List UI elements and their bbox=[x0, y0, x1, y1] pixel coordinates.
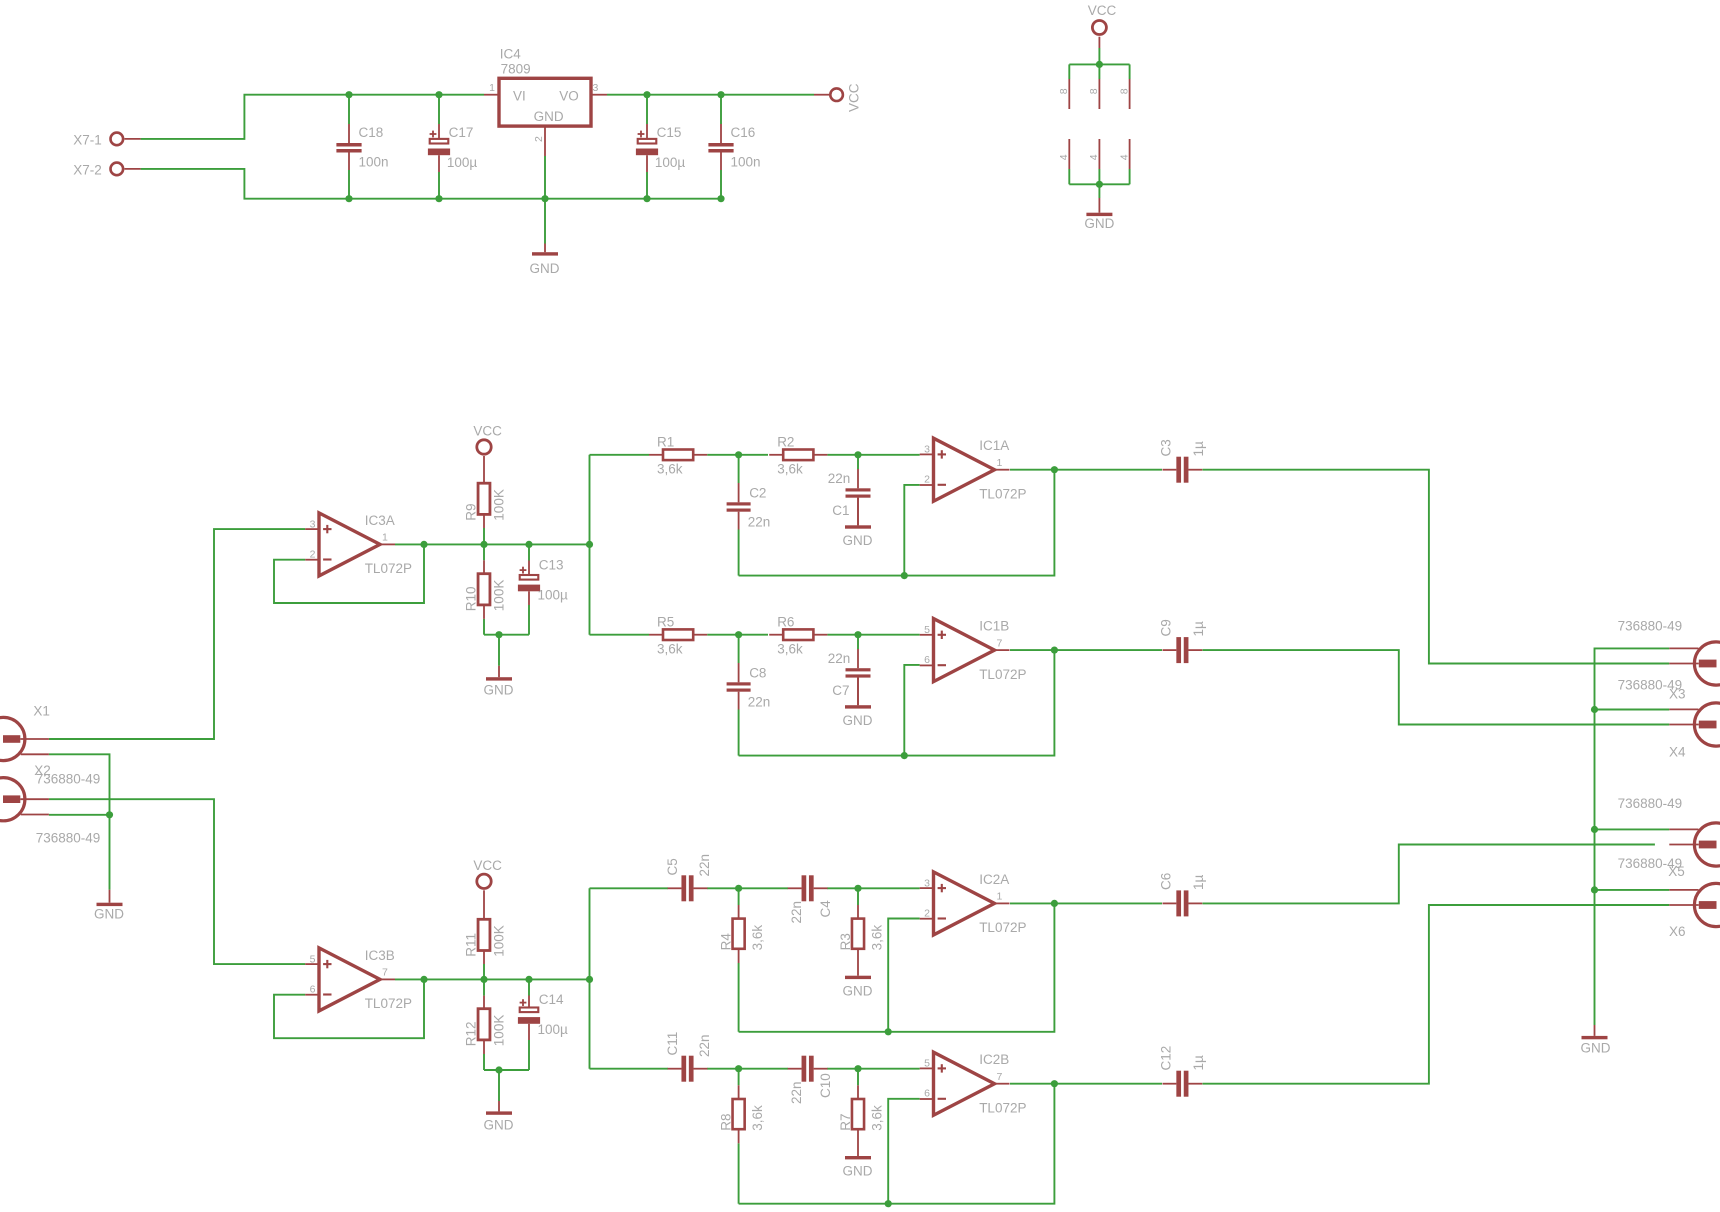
wire IC1A in- feedback bbox=[904, 485, 919, 576]
wire split vertical upper bbox=[589, 455, 591, 635]
wire IC3A output rail bbox=[395, 543, 590, 545]
svg-text:100µ: 100µ bbox=[447, 155, 478, 170]
wire C10 to IC2B bbox=[827, 1068, 920, 1070]
svg-text:22n: 22n bbox=[748, 695, 771, 710]
wire R4 to feedback bbox=[738, 963, 740, 1032]
wire C15 bottom bbox=[646, 172, 648, 199]
svg-text:736880-49: 736880-49 bbox=[36, 771, 101, 786]
resistor R1 bbox=[663, 450, 693, 461]
wire C18 bottom bbox=[348, 170, 350, 199]
svg-text:1µ: 1µ bbox=[1191, 441, 1206, 457]
svg-text:1: 1 bbox=[489, 82, 495, 94]
node C16 top bbox=[717, 91, 724, 98]
svg-text:3: 3 bbox=[593, 82, 599, 94]
svg-text:3,6k: 3,6k bbox=[777, 641, 803, 656]
wire X2 tip to IC3B in+ bbox=[49, 799, 305, 964]
capacitor C13 plates bbox=[520, 569, 527, 571]
wire vcc stub b bbox=[1098, 64, 1100, 79]
svg-text:X1: X1 bbox=[33, 704, 50, 719]
svg-text:100K: 100K bbox=[491, 580, 506, 612]
svg-text:X7-2: X7-2 bbox=[73, 163, 102, 178]
capacitor C9 bbox=[1176, 637, 1181, 663]
node C17 bottom bbox=[435, 195, 442, 202]
wire IC2B out to C12 bbox=[1010, 1083, 1162, 1085]
svg-text:GND: GND bbox=[843, 713, 873, 728]
node IC2A out bbox=[1051, 900, 1058, 907]
svg-text:VCC: VCC bbox=[473, 424, 502, 439]
wire IC1A out to C3 bbox=[1010, 469, 1162, 471]
wire R12 bottom bbox=[483, 1054, 485, 1070]
svg-text:2: 2 bbox=[924, 474, 930, 486]
resistor R5 bbox=[663, 629, 693, 640]
wire C13 bottom bbox=[528, 605, 530, 635]
svg-text:VI: VI bbox=[513, 89, 526, 104]
node X1/X2 sleeve bbox=[106, 811, 113, 818]
wire C6 to X5 bbox=[1203, 845, 1655, 904]
wire link to GND 2 bbox=[498, 1070, 500, 1101]
node C15 top bbox=[643, 91, 650, 98]
wire rail to R10 bbox=[483, 544, 485, 560]
svg-text:6: 6 bbox=[310, 983, 316, 995]
svg-text:8: 8 bbox=[1058, 88, 1070, 94]
svg-text:R5: R5 bbox=[657, 614, 674, 629]
node R12-C14 gnd bbox=[495, 1066, 502, 1073]
svg-text:IC1A: IC1A bbox=[979, 438, 1009, 453]
connector X6 jack bbox=[1694, 883, 1720, 926]
wire IC2A feedback rail bbox=[739, 903, 1055, 1031]
capacitor C6 bbox=[1176, 890, 1181, 916]
ground (C1) bbox=[857, 498, 859, 526]
wire gnd stub a bbox=[1068, 169, 1070, 184]
node IC4 gnd bbox=[541, 195, 548, 202]
svg-text:7: 7 bbox=[382, 967, 388, 979]
wire C16 top bbox=[720, 95, 722, 124]
svg-text:100µ: 100µ bbox=[655, 155, 686, 170]
connector X2 jack bbox=[0, 778, 25, 821]
voltage regulator IC4 7809 bbox=[499, 78, 591, 126]
svg-text:GND: GND bbox=[1581, 1041, 1611, 1056]
op-amp IC3A bbox=[319, 513, 380, 576]
VCC supply symbol (IC power) bbox=[1092, 21, 1106, 35]
capacitor C5 bbox=[681, 875, 686, 901]
svg-text:VCC: VCC bbox=[473, 858, 502, 873]
svg-text:100K: 100K bbox=[491, 925, 506, 957]
svg-text:C5: C5 bbox=[665, 858, 680, 875]
wire IC1B feedback rail bbox=[739, 650, 1055, 756]
connector X7-2 bbox=[111, 163, 124, 176]
node IC1A out bbox=[1051, 466, 1058, 473]
svg-text:4: 4 bbox=[1088, 154, 1100, 160]
node C18 top bbox=[345, 91, 352, 98]
svg-text:R1: R1 bbox=[657, 435, 674, 450]
VCC supply symbol (R9) bbox=[477, 440, 491, 454]
svg-text:1µ: 1µ bbox=[1191, 621, 1206, 637]
wire rail to C14 bbox=[528, 979, 530, 995]
svg-text:736880-49: 736880-49 bbox=[36, 831, 101, 846]
wire C12 to X6 bbox=[1203, 905, 1670, 1084]
capacitor C18 plates bbox=[336, 143, 361, 147]
wire gnd stub c bbox=[1129, 169, 1131, 184]
node R10-C13 gnd bbox=[495, 631, 502, 638]
svg-text:100n: 100n bbox=[731, 155, 761, 170]
svg-text:IC3B: IC3B bbox=[365, 948, 395, 963]
wire node to C8 bbox=[738, 635, 740, 663]
wire node to R7 bbox=[857, 1069, 859, 1086]
svg-text:R2: R2 bbox=[777, 435, 794, 450]
capacitor C3 bbox=[1176, 457, 1181, 483]
wire C9 to X4 bbox=[1203, 650, 1670, 724]
svg-text:3: 3 bbox=[310, 518, 316, 530]
wire X5 sleeve bbox=[1595, 828, 1670, 830]
wire to C11 bbox=[590, 1068, 669, 1070]
svg-text:TL072P: TL072P bbox=[979, 920, 1026, 935]
node X5 sleeve bbox=[1591, 826, 1598, 833]
svg-text:7: 7 bbox=[997, 637, 1003, 649]
node IC2A fb bbox=[885, 1028, 892, 1035]
svg-text:736880-49: 736880-49 bbox=[1618, 856, 1683, 871]
ground (R10/C13) bbox=[498, 666, 500, 677]
svg-text:GND: GND bbox=[843, 984, 873, 999]
node C17 top bbox=[435, 91, 442, 98]
svg-text:22n: 22n bbox=[789, 901, 804, 924]
svg-text:VCC: VCC bbox=[847, 83, 862, 112]
svg-text:1: 1 bbox=[382, 532, 388, 544]
wire C5 to C4 bbox=[707, 887, 788, 889]
wire C16 bottom bbox=[720, 170, 722, 199]
svg-text:22n: 22n bbox=[748, 515, 771, 530]
svg-text:3: 3 bbox=[924, 444, 930, 456]
wire C3 to X3 bbox=[1203, 470, 1670, 664]
svg-text:IC3A: IC3A bbox=[365, 513, 395, 528]
VCC supply symbol (R11) bbox=[477, 874, 491, 888]
op-amp IC2B bbox=[934, 1052, 995, 1115]
svg-text:R11: R11 bbox=[463, 933, 478, 957]
node IC1B out bbox=[1051, 647, 1058, 654]
node C18 bottom bbox=[345, 195, 352, 202]
node R11/R12 bbox=[480, 976, 487, 983]
node C14 bbox=[525, 976, 532, 983]
capacitor C13 bbox=[528, 561, 530, 576]
wire X7-2 to ground rail bbox=[141, 169, 721, 199]
wire node to R8 bbox=[738, 1069, 740, 1086]
ground (power rail) bbox=[544, 244, 546, 253]
wire vcc stub c bbox=[1129, 64, 1131, 79]
svg-text:1µ: 1µ bbox=[1191, 874, 1206, 890]
wire IC2B feedback rail bbox=[739, 1084, 1055, 1204]
capacitor C7 bbox=[857, 649, 859, 668]
wire R8 to feedback bbox=[738, 1143, 740, 1203]
node X4 sleeve bbox=[1591, 706, 1598, 713]
node split upper bbox=[586, 541, 593, 548]
svg-text:8: 8 bbox=[1118, 88, 1130, 94]
svg-text:3,6k: 3,6k bbox=[657, 641, 683, 656]
svg-text:C10: C10 bbox=[818, 1073, 833, 1098]
svg-text:IC4: IC4 bbox=[500, 47, 522, 62]
svg-text:736880-49: 736880-49 bbox=[1618, 796, 1683, 811]
capacitor C16 bbox=[720, 124, 722, 143]
svg-text:GND: GND bbox=[484, 683, 514, 698]
wire IC3B output rail bbox=[395, 978, 590, 980]
wire C17 top bbox=[438, 95, 440, 124]
node gnd pins bbox=[1096, 181, 1103, 188]
svg-text:C1: C1 bbox=[832, 503, 849, 518]
wire X4 sleeve bbox=[1595, 709, 1670, 711]
wire C17 bottom bbox=[438, 172, 440, 199]
svg-text:GND: GND bbox=[534, 109, 564, 124]
svg-text:VCC: VCC bbox=[1088, 3, 1117, 18]
capacitor C15 bbox=[646, 124, 648, 139]
VCC supply symbol (regulator output) bbox=[814, 94, 829, 96]
ground (R12/C14) bbox=[498, 1101, 500, 1111]
wire R11 bottom bbox=[483, 964, 485, 979]
capacitor C12 bbox=[1176, 1071, 1181, 1097]
wire node to R4 bbox=[738, 888, 740, 905]
svg-text:IC2A: IC2A bbox=[979, 872, 1009, 887]
svg-text:X4: X4 bbox=[1669, 745, 1686, 760]
capacitor C14 bbox=[528, 996, 530, 1008]
capacitor C16 plates bbox=[708, 143, 733, 147]
svg-text:22n: 22n bbox=[697, 854, 712, 877]
node C10/R7 bbox=[854, 1065, 861, 1072]
wire R6 to IC1B bbox=[827, 634, 919, 636]
capacitor C11 bbox=[681, 1056, 686, 1082]
node C5/R4 bbox=[735, 885, 742, 892]
node R1/C2 bbox=[735, 451, 742, 458]
svg-text:C18: C18 bbox=[359, 125, 384, 140]
svg-text:3,6k: 3,6k bbox=[750, 1105, 765, 1131]
wire IC2A in- feedback bbox=[888, 919, 920, 1032]
wire rail to R12 bbox=[483, 979, 485, 995]
svg-text:TL072P: TL072P bbox=[979, 1101, 1026, 1116]
connector X3 jack bbox=[1694, 642, 1720, 685]
svg-text:IC1B: IC1B bbox=[979, 619, 1009, 634]
wire IC4 gnd pin to rail bbox=[544, 156, 546, 199]
svg-text:C7: C7 bbox=[832, 683, 849, 698]
svg-text:C8: C8 bbox=[749, 666, 766, 681]
svg-text:3,6k: 3,6k bbox=[869, 1105, 884, 1131]
svg-text:C14: C14 bbox=[539, 992, 564, 1007]
wire node to C2 bbox=[738, 455, 740, 483]
node C15 bottom bbox=[643, 195, 650, 202]
svg-text:R3: R3 bbox=[838, 933, 853, 950]
svg-text:C9: C9 bbox=[1159, 619, 1174, 636]
wire pins to GND symbol bbox=[1098, 184, 1100, 198]
wire IC1A feedback rail bbox=[739, 470, 1055, 576]
svg-text:C3: C3 bbox=[1159, 439, 1174, 456]
svg-text:GND: GND bbox=[843, 533, 873, 548]
capacitor C17 plates bbox=[430, 133, 437, 135]
wire link to GND bbox=[498, 635, 500, 666]
svg-text:22n: 22n bbox=[828, 471, 851, 486]
svg-text:22n: 22n bbox=[789, 1081, 804, 1104]
wire IC2B in- feedback bbox=[888, 1099, 920, 1204]
wire X3 sleeve and GND bus bbox=[1595, 648, 1670, 1025]
resistor R4 bbox=[733, 919, 745, 949]
svg-text:C2: C2 bbox=[749, 486, 766, 501]
wire C14 bottom bbox=[528, 1040, 530, 1070]
node IC1A fb bbox=[901, 572, 908, 579]
svg-text:3,6k: 3,6k bbox=[869, 925, 884, 951]
wire C2 to feedback bbox=[738, 530, 740, 576]
svg-text:X6: X6 bbox=[1669, 924, 1686, 939]
wire vcc pin bus bbox=[1069, 63, 1129, 65]
node C13 bbox=[525, 541, 532, 548]
svg-text:7: 7 bbox=[997, 1071, 1003, 1083]
node split lower bbox=[586, 976, 593, 983]
connector X7-1 bbox=[111, 133, 124, 146]
wire IC3B feedback bbox=[274, 979, 424, 1038]
wire C8 to feedback bbox=[738, 710, 740, 756]
wire VCC to pins bbox=[1098, 48, 1100, 64]
capacitor C18 bbox=[348, 124, 350, 143]
node R9/R10 bbox=[480, 541, 487, 548]
svg-text:1µ: 1µ bbox=[1191, 1055, 1206, 1071]
svg-text:100K: 100K bbox=[491, 489, 506, 521]
capacitor C1 bbox=[857, 469, 859, 488]
op-amp IC1A bbox=[934, 438, 995, 501]
wire gnd pin bus bbox=[1069, 183, 1129, 185]
svg-text:3: 3 bbox=[924, 877, 930, 889]
resistor R7 bbox=[852, 1099, 864, 1129]
svg-text:2: 2 bbox=[924, 907, 930, 919]
svg-text:3,6k: 3,6k bbox=[657, 462, 683, 477]
svg-text:R12: R12 bbox=[463, 1021, 478, 1046]
capacitor C4 bbox=[802, 875, 807, 901]
wire R9 bottom bbox=[483, 528, 485, 544]
svg-text:5: 5 bbox=[924, 1058, 930, 1070]
ground (IC power pins) bbox=[1098, 198, 1100, 213]
node X6 sleeve bbox=[1591, 886, 1598, 893]
svg-text:TL072P: TL072P bbox=[365, 996, 412, 1011]
svg-text:TL072P: TL072P bbox=[365, 561, 412, 576]
svg-text:GND: GND bbox=[94, 907, 124, 922]
pin 8 stub b bbox=[1098, 79, 1100, 109]
svg-text:C13: C13 bbox=[539, 558, 564, 573]
svg-text:5: 5 bbox=[924, 624, 930, 636]
node R2/C1 bbox=[854, 451, 861, 458]
resistor R2 bbox=[783, 450, 813, 461]
node IC3B fb bbox=[420, 976, 427, 983]
capacitor C2 bbox=[738, 483, 740, 502]
wire R5 to R6 bbox=[707, 634, 768, 636]
svg-text:R4: R4 bbox=[719, 933, 734, 951]
wire X1 sleeve down bbox=[49, 754, 110, 889]
svg-text:1: 1 bbox=[997, 457, 1003, 469]
wire R12-C14 link bbox=[484, 1069, 529, 1071]
wire node to C1 bbox=[857, 455, 859, 469]
capacitor C17 bbox=[438, 124, 440, 139]
wire to R5 bbox=[590, 634, 650, 636]
svg-text:C12: C12 bbox=[1159, 1046, 1174, 1071]
svg-text:2: 2 bbox=[533, 136, 545, 142]
wire C15 top bbox=[646, 95, 648, 124]
connector X4 jack bbox=[1694, 703, 1720, 746]
svg-text:TL072P: TL072P bbox=[979, 487, 1026, 502]
ground (input jacks) bbox=[109, 890, 111, 903]
svg-text:736880-49: 736880-49 bbox=[1618, 619, 1683, 634]
wire IC2A out to C6 bbox=[1010, 902, 1162, 904]
svg-text:C11: C11 bbox=[665, 1032, 680, 1056]
node IC2B fb bbox=[885, 1200, 892, 1207]
wire rail to GND symbol bbox=[544, 199, 546, 244]
wire R1 to R2 bbox=[707, 454, 768, 456]
svg-text:IC2B: IC2B bbox=[979, 1052, 1009, 1067]
resistor R6 bbox=[783, 629, 813, 640]
svg-text:736880-49: 736880-49 bbox=[1618, 678, 1683, 693]
svg-text:7809: 7809 bbox=[501, 62, 531, 77]
svg-text:5: 5 bbox=[310, 953, 316, 965]
wire IC1B in- feedback bbox=[904, 665, 919, 756]
svg-text:TL072P: TL072P bbox=[979, 667, 1026, 682]
wire IC3A feedback bbox=[274, 544, 424, 603]
node R5/C8 bbox=[735, 631, 742, 638]
wire R2 to IC1A bbox=[827, 454, 919, 456]
pin 4 stub a bbox=[1068, 139, 1070, 169]
wire gnd stub b bbox=[1098, 169, 1100, 184]
svg-text:4: 4 bbox=[1058, 154, 1070, 160]
node IC2B out bbox=[1051, 1080, 1058, 1087]
svg-text:R6: R6 bbox=[777, 614, 794, 629]
wire X7-1 to input rail bbox=[141, 95, 484, 139]
svg-text:C15: C15 bbox=[657, 125, 682, 140]
resistor R3 bbox=[852, 919, 864, 949]
wire C18 top bbox=[348, 95, 350, 124]
svg-text:3,6k: 3,6k bbox=[750, 925, 765, 951]
resistor R10 bbox=[478, 574, 490, 605]
svg-text:1: 1 bbox=[997, 891, 1003, 903]
connector X1 jack bbox=[0, 717, 25, 760]
svg-text:R8: R8 bbox=[719, 1114, 734, 1131]
node C16 bottom bbox=[717, 195, 724, 202]
op-amp IC2A bbox=[934, 872, 995, 935]
wire node to R3 bbox=[857, 888, 859, 905]
svg-text:VO: VO bbox=[559, 89, 579, 104]
ground (R3) bbox=[857, 949, 859, 976]
ground (C7) bbox=[857, 678, 859, 706]
pin 8 stub c bbox=[1129, 79, 1131, 109]
svg-text:R9: R9 bbox=[463, 503, 478, 520]
svg-text:GND: GND bbox=[843, 1164, 873, 1179]
svg-text:C4: C4 bbox=[818, 900, 833, 918]
node C11/R8 bbox=[735, 1065, 742, 1072]
svg-text:100K: 100K bbox=[491, 1015, 506, 1047]
wire C11 to C10 bbox=[707, 1068, 788, 1070]
ground (R7) bbox=[857, 1129, 859, 1156]
pin 8 stub a bbox=[1068, 79, 1070, 109]
node IC1B fb bbox=[901, 752, 908, 759]
svg-text:X7-1: X7-1 bbox=[73, 133, 102, 148]
svg-text:22n: 22n bbox=[828, 651, 851, 666]
resistor R9 bbox=[478, 483, 490, 514]
svg-text:6: 6 bbox=[924, 1088, 930, 1100]
svg-text:2: 2 bbox=[310, 548, 316, 560]
capacitor C10 bbox=[802, 1056, 807, 1082]
wire node to C7 bbox=[857, 635, 859, 649]
node C4/R3 bbox=[854, 885, 861, 892]
svg-text:GND: GND bbox=[484, 1118, 514, 1133]
node IC3A fb bbox=[420, 541, 427, 548]
svg-text:C6: C6 bbox=[1159, 873, 1174, 890]
wire R10 bottom bbox=[483, 619, 485, 635]
wire to C5 bbox=[590, 887, 669, 889]
pin 4 stub b bbox=[1098, 139, 1100, 169]
svg-text:GND: GND bbox=[530, 261, 560, 276]
node R6/C7 bbox=[854, 631, 861, 638]
capacitor C8 bbox=[738, 663, 740, 682]
capacitor C15 plates bbox=[638, 133, 645, 135]
wire to R1 bbox=[590, 454, 650, 456]
svg-text:C16: C16 bbox=[731, 125, 756, 140]
